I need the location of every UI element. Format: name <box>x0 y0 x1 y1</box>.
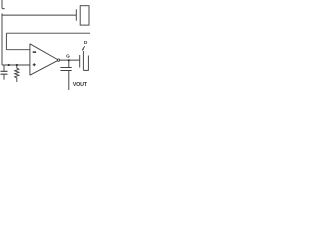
svg-text:D: D <box>84 40 88 46</box>
svg-text:VOUT: VOUT <box>73 82 88 88</box>
svg-text:G: G <box>66 54 70 60</box>
